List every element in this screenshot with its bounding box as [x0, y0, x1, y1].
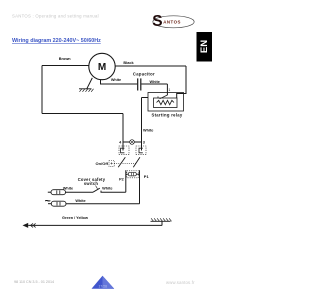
svg-text:P2: P2 [119, 178, 124, 182]
wire motor bottom white [101, 80, 138, 84]
starting relay contact arm [160, 95, 168, 99]
svg-text:White: White [111, 78, 121, 82]
switch pole 4 contact [121, 148, 125, 153]
starting relay left terminal wire [142, 97, 149, 99]
svg-text:P1: P1 [144, 174, 150, 179]
indicator lamp [130, 140, 135, 145]
wire capacitor right lead [141, 83, 167, 85]
footer logo triangle [92, 276, 115, 289]
cover safety switch label pointer [96, 186, 98, 189]
earth wire arrow chevrons [31, 223, 36, 227]
earth wire green/yellow [28, 224, 162, 226]
wire black lead right of motor [115, 65, 186, 67]
svg-text:Black: Black [123, 61, 134, 65]
on/off actuator box [109, 161, 114, 167]
motor ground lead [87, 78, 93, 89]
svg-text:White: White [150, 80, 160, 84]
indicator lamp leads [123, 141, 142, 143]
starting relay outer housing [148, 93, 184, 112]
svg-text:Green / Yellow: Green / Yellow [62, 216, 88, 220]
on/off actuator cross [111, 162, 113, 164]
svg-text:98 110 CN 3.5 - 01 2014: 98 110 CN 3.5 - 01 2014 [14, 280, 54, 284]
wire black vertical down to relay [177, 66, 186, 98]
mechanical link dotted [114, 162, 137, 164]
svg-text:Starting relay: Starting relay [152, 113, 183, 118]
capacitor C plates [137, 78, 139, 90]
wire white vertical to switch pole 3 [141, 98, 143, 151]
wire neutral lower white [66, 203, 140, 205]
wire P2 vertical [125, 170, 127, 192]
svg-text:White: White [143, 128, 153, 132]
earth wire arrow head [23, 223, 29, 228]
svg-text:Brown: Brown [59, 57, 71, 61]
svg-text:M: M [98, 62, 106, 73]
wire brown lead left of motor [42, 65, 89, 67]
switch arm right [133, 157, 140, 167]
switch pole 3 contact box [136, 146, 146, 155]
wire drop into relay contact, node 1 [166, 84, 168, 95]
svg-text:~: ~ [45, 195, 51, 207]
starting relay contact post [157, 96, 159, 98]
svg-text:ANTOS: ANTOS [163, 20, 181, 25]
connector terminal upper white [48, 191, 51, 193]
motor ground symbol [79, 88, 92, 90]
starting relay coil box [154, 98, 178, 108]
switch pole 4 contact box [119, 146, 129, 155]
thermal protector box dashed [127, 171, 139, 178]
switch arm left [118, 157, 125, 167]
wire P1 vertical [139, 170, 141, 204]
svg-text:SANTOS : Operating and setting: SANTOS : Operating and setting manual [12, 13, 99, 18]
svg-text:17/28: 17/28 [99, 284, 108, 288]
switch pole 3 contact [139, 148, 143, 153]
svg-text:White: White [63, 186, 73, 190]
cover safety switch right contact [101, 191, 126, 193]
connector terminal lower white [48, 203, 51, 205]
wire switch pole 4 vertical [122, 114, 124, 151]
svg-text:White: White [75, 199, 85, 203]
svg-text:4: 4 [119, 140, 122, 144]
thermal protector body [128, 172, 136, 176]
cover safety switch arm [93, 188, 100, 192]
starting relay coil zigzag [157, 100, 174, 104]
logo Santos ellipse [152, 13, 194, 30]
svg-text:1: 1 [169, 88, 171, 92]
svg-text:3: 3 [143, 140, 145, 144]
svg-text:switch: switch [84, 181, 98, 186]
svg-text:On/Off: On/Off [96, 161, 109, 166]
wire left vertical [41, 66, 43, 114]
svg-text:Wiring diagram 220-240V~ 50/6: Wiring diagram 220-240V~ 50/60Hz [12, 38, 101, 44]
svg-text:EN: EN [199, 40, 210, 53]
chassis ground symbol [151, 220, 171, 222]
wire from upper connector to cover switch [66, 191, 94, 193]
svg-text:www.santos.fr: www.santos.fr [166, 280, 195, 285]
wire bottom horizontal to switch pole 4 [42, 113, 123, 115]
thermal protector leads [126, 173, 140, 175]
svg-text:Capacitor: Capacitor [133, 71, 155, 76]
svg-text:S: S [152, 13, 162, 30]
motor M [89, 53, 115, 79]
EN language tab [197, 32, 213, 62]
svg-text:White: White [102, 186, 112, 190]
